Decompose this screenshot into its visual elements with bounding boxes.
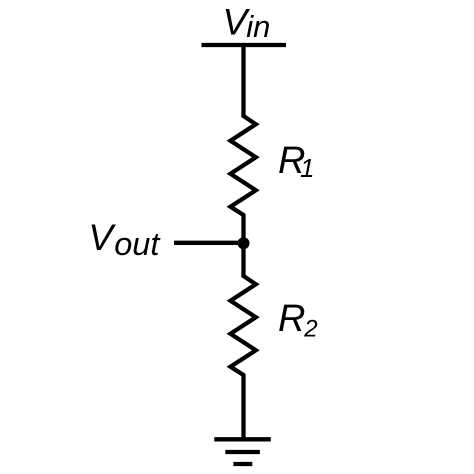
svg-text:V: V [88,217,116,258]
svg-text:out: out [114,226,161,262]
svg-text:R: R [278,298,305,340]
svg-text:1: 1 [300,153,314,183]
svg-text:2: 2 [303,315,317,342]
svg-text:in: in [246,9,270,44]
